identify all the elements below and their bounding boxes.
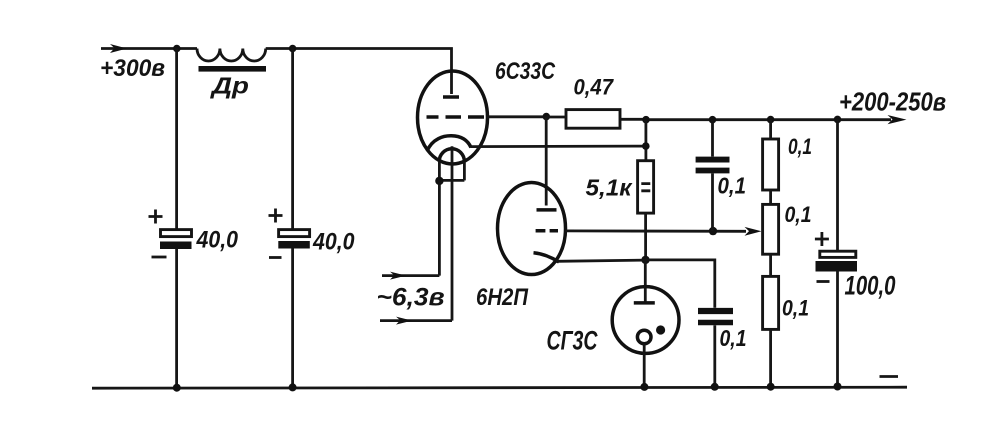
wire: C4 bottom lead xyxy=(713,325,716,387)
node: output minus dash xyxy=(880,375,899,378)
wire: V1 grid line to node A xyxy=(487,115,547,118)
wire: V1 cathode line xyxy=(471,145,646,148)
junction: rail / divider xyxy=(767,383,775,391)
wire: R4-R5 xyxy=(769,254,772,276)
junction: rail / V3 cathode xyxy=(640,383,648,391)
wire: C2 top lead xyxy=(291,49,294,230)
svg-text:0,1: 0,1 xyxy=(788,134,812,159)
resistor R5 0,1 body xyxy=(763,276,779,329)
tube V1 heater arch xyxy=(439,149,464,162)
tube V3 anode bar xyxy=(634,301,655,305)
capacitor C1 40,0 top plate xyxy=(161,230,192,237)
wire: V2 cathode line to node B xyxy=(556,260,646,261)
svg-text:40,0: 40,0 xyxy=(196,227,239,254)
inductor Др core bar xyxy=(199,66,267,72)
junction: node A (grid / R1 / V2 anode) xyxy=(543,113,551,121)
potentiometer R4 0,1 body xyxy=(763,204,779,254)
capacitor C2 40,0 bottom plate xyxy=(278,241,310,249)
junction: wiper line / C3 bottom xyxy=(709,227,717,235)
svg-text:~6,3в: ~6,3в xyxy=(377,284,445,312)
svg-text:0,1: 0,1 xyxy=(718,173,747,199)
resistor R3 0,1 body xyxy=(763,139,779,190)
svg-text:0,1: 0,1 xyxy=(720,325,747,351)
junction: rail / C1 xyxy=(173,384,181,392)
svg-text:+200-250в: +200-250в xyxy=(839,87,946,117)
capacitor C2 minus sign xyxy=(269,256,282,259)
tube V3 gas dot xyxy=(656,325,665,334)
junction: cathode node xyxy=(642,142,650,150)
resistor R1 0,47 body xyxy=(566,110,620,129)
capacitor C2 plus sign xyxy=(269,209,283,223)
tube V2 anode bar xyxy=(537,208,557,212)
junction: rail / divider xyxy=(767,116,775,124)
wire: upper 6,3v heater feed xyxy=(382,272,439,280)
wire: R2 bottom lead xyxy=(644,213,647,260)
svg-text:0,1: 0,1 xyxy=(782,296,809,321)
tube V2 cathode arc xyxy=(534,253,560,262)
tube V1 grid (dashed) xyxy=(427,115,485,119)
capacitor C5 100,0 top plate xyxy=(820,251,856,257)
wire: node B to C4 branch xyxy=(646,260,715,308)
svg-text:0,1: 0,1 xyxy=(785,202,812,227)
wire: rail from choke to V1 anode xyxy=(266,49,452,95)
capacitor C1 plus sign xyxy=(149,210,163,224)
wire: +300v input rail xyxy=(101,44,197,53)
junction: rail / C2 xyxy=(289,45,297,53)
wire: lower 6,3v heater feed xyxy=(380,317,452,325)
resistor R2 5,1к body xyxy=(638,161,654,213)
resistor R1 leads xyxy=(546,117,647,119)
wire: node B down to V3 anode xyxy=(644,260,647,302)
svg-text:6Н2П: 6Н2П xyxy=(476,284,529,311)
wire: C5 top lead xyxy=(836,120,839,252)
capacitor C5 plus sign xyxy=(815,232,829,246)
junction: node B (R2 / V2 cathode / C4 / V3 anode) xyxy=(641,256,649,264)
wire: R5 bottom lead xyxy=(769,329,772,386)
inductor Др (choke winding) xyxy=(197,49,266,62)
wire: V3 cathode lead xyxy=(643,344,646,387)
junction: rail / C3 xyxy=(709,116,717,124)
wire: C1 bottom lead xyxy=(175,249,178,388)
capacitor C3 plates xyxy=(696,157,730,174)
tube V2 6Н2П envelope xyxy=(498,183,566,275)
wire: R3-R4 xyxy=(769,190,772,204)
capacitor C4 0,1 plates xyxy=(698,308,733,325)
wire: C5 bottom lead xyxy=(836,271,839,387)
junction: rail / R2 branch xyxy=(642,116,650,124)
svg-text:5,1к: 5,1к xyxy=(586,175,633,201)
junction: rail / C5 xyxy=(834,383,842,391)
svg-text:40,0: 40,0 xyxy=(312,229,355,256)
capacitor C3 0,1 leads xyxy=(711,120,714,231)
tube V3 cathode circle xyxy=(637,330,651,344)
wire: V2 grid to potentiometer wiper (arrow) xyxy=(565,227,761,236)
wire: bottom (minus) rail xyxy=(92,387,907,388)
junction: rail / C5 xyxy=(834,116,842,124)
tube V1 cathode arc xyxy=(427,136,471,151)
tube V1 6С33С envelope xyxy=(418,71,488,164)
resistor R2 power marks xyxy=(641,184,650,191)
wire: cathode center lead down xyxy=(451,146,454,320)
wire: rail down to cathode node xyxy=(645,120,648,161)
capacitor C1 40,0 bottom plate xyxy=(160,242,192,250)
capacitor C2 40,0 top plate xyxy=(279,230,310,237)
wire: heater right leg xyxy=(463,162,466,181)
stabilizer tube V3 СГ3С envelope xyxy=(612,287,679,354)
junction: heater leg xyxy=(435,177,443,185)
svg-text:+300в: +300в xyxy=(100,55,165,82)
wire: divider top lead xyxy=(769,120,772,139)
junction: rail / C1 xyxy=(173,45,181,53)
wire: C2 bottom lead xyxy=(291,249,294,388)
svg-text:100,0: 100,0 xyxy=(845,271,896,301)
svg-text:6С33С: 6С33С xyxy=(495,58,555,85)
svg-text:СГ3С: СГ3С xyxy=(547,326,598,356)
capacitor C1 minus sign xyxy=(152,256,167,259)
svg-text:0,47: 0,47 xyxy=(574,75,615,100)
wire: output rail with arrow xyxy=(646,115,907,124)
wire: node A down to V2 anode xyxy=(545,117,548,206)
wire: C1 top lead xyxy=(175,49,178,230)
capacitor C5 100,0 bottom plate xyxy=(816,261,858,272)
tube V1 anode xyxy=(443,95,459,99)
wire: heater bottom bar xyxy=(439,179,464,182)
junction: rail / C2 xyxy=(289,383,297,391)
wire: heater left leg down xyxy=(438,162,441,276)
svg-text:Др: Др xyxy=(210,73,249,99)
junction: rail / C4 xyxy=(711,383,719,391)
tube V2 grid dashes xyxy=(536,229,558,233)
capacitor C5 minus sign xyxy=(817,280,830,283)
